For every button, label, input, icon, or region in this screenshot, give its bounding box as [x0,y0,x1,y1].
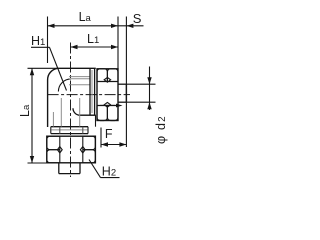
nut vertical facet lines [59,137,61,163]
nut vertical chamfer cells left [47,136,60,150]
bore hidden lines vertical leg [60,98,62,127]
dimension line F (y=144.5) [101,144,126,146]
arrow La-left top [30,68,34,75]
nut horizontal leg outline [97,69,118,121]
nut horizontal facet lines [97,81,118,83]
arrow L1 left [71,45,78,49]
hidden tube-depth dashed arrow (y=105.3) [100,104,115,106]
svg-text:L1: L1 [87,32,99,46]
arrow La right / S left (shared) [111,24,118,28]
arrow phi-d2 top (outside, pointing down) [147,77,151,84]
outer corner arc [48,68,58,80]
wire extension line x=47.5 (left end of La top dim) [47,17,49,64]
stub tube horizontal [118,83,126,85]
dimension F: extension line x=101 [100,128,102,148]
arrow F left [101,142,108,146]
arrow L1 right [111,45,118,49]
leader H1 underline and diagonal [31,46,50,48]
svg-text:F: F [105,127,113,141]
arrow phi-d2 bottom (outside, pointing up) [147,102,151,109]
body left edge [47,80,49,127]
phi-d2 extension line top (y=83.7) [126,83,155,85]
dimension line La top + S (y=25.8) [48,25,144,27]
horizontal leg bottom edge [80,114,96,116]
nut vertical diamonds [57,147,62,153]
arrow S right (outside) [126,24,133,28]
collar band horizontal leg [89,69,91,115]
dimension line L1 (y=47) [71,46,119,48]
hex band vertical leg [51,126,88,128]
arrow F right [119,142,126,146]
wire extension line x=118 (nut face, right end of La/L1, left of S) [117,17,119,69]
nut horizontal chamfer cells bottom [97,106,107,121]
leader H2 diagonal and underline [89,160,101,178]
bore hidden lines horizontal leg [69,76,90,78]
wire extension line x=126.4 (stub end, S right / F right / phi-d2 exts) [125,17,127,148]
phi-d2 extension line bottom (y=101.3) [126,101,155,103]
svg-text:La: La [79,10,92,24]
body top edge [58,67,96,69]
svg-text:φ d2: φ d2 [154,115,168,144]
dimension line phi-d2 vertical (x=149.5) [149,67,151,111]
nut horizontal chamfer cells top [97,69,107,82]
svg-text:H1: H1 [31,34,45,48]
arrow La-left bottom [30,156,34,163]
dimension line La left vertical (x=32) [31,68,33,163]
wire extension line y=163 (bottom, left La-vertical dim) [28,162,48,164]
nut vertical leg outline [47,136,96,163]
arrow La left [48,24,55,28]
nut horizontal diamonds [104,77,110,82]
svg-text:La: La [18,104,32,117]
inner corner fillet arc [73,108,80,115]
nut vertical chamfer cells right [83,136,96,150]
stub tube vertical [58,163,60,174]
svg-text:S: S [133,11,142,26]
centerline horizontal leg (y=94.6) [48,94,130,96]
corner sphere arc [58,79,71,92]
svg-text:H2: H2 [102,165,116,179]
wire extension line y=68.3 (top, left La-vertical dim) [28,67,59,69]
centerline vertical leg (x=70.5) [70,43,72,178]
block right edge below leg [95,115,97,127]
